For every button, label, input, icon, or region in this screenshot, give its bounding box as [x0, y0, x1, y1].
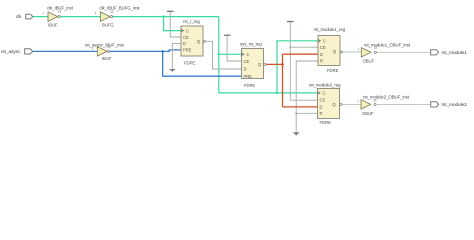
svg-text:R: R [320, 111, 323, 116]
svg-text:D: D [244, 67, 247, 72]
buffer OBUF rst_module2_OBUF_inst [357, 94, 409, 115]
svg-text:rst_module1: rst_module1 [442, 50, 468, 55]
flip-flop sys_rst_reg FDPE [240, 42, 266, 88]
wire clk branch down to rst_r_reg C [164, 17, 181, 31]
svg-text:O: O [111, 10, 114, 14]
svg-text:O: O [374, 46, 377, 50]
svg-text:clk: clk [16, 14, 22, 19]
svg-text:FDRE: FDRE [327, 68, 339, 73]
wire clk main vertical [218, 17, 220, 93]
wire clk branch up to rst_module1_reg C [277, 41, 318, 93]
svg-text:IBUF: IBUF [102, 56, 112, 61]
wire sys_rst net: sys_rst_reg Q to vertical [266, 63, 283, 65]
power const1 shared stub for rst_module1/2 CE [290, 22, 317, 101]
ground arrowhead rst_module R [293, 132, 300, 135]
svg-text:clk_IBUF_BUFG_inst: clk_IBUF_BUFG_inst [100, 6, 141, 11]
wire clk bottom horizontal to rst_module2_reg C [219, 92, 318, 94]
wire sys_rst to rst_module1_reg D [283, 53, 319, 55]
node junction clk at 218.8,54.3 [218, 53, 220, 55]
buffer BUFG clk_IBUF_BUFG_inst [95, 6, 140, 28]
svg-text:O: O [374, 98, 377, 102]
svg-text:D: D [320, 104, 323, 109]
wire sys_rst vertical [282, 54, 284, 107]
buffer IBUF clk_IBUF_inst [42, 6, 73, 28]
svg-text:BUFG: BUFG [102, 23, 114, 28]
svg-text:CE: CE [244, 59, 250, 64]
svg-text:I: I [42, 12, 43, 16]
svg-text:O: O [108, 45, 111, 49]
svg-text:I: I [358, 47, 359, 51]
port rst_async [25, 49, 33, 54]
svg-text:C: C [323, 91, 326, 96]
svg-text:FDPE: FDPE [244, 83, 255, 88]
wire rst_module2 Q to OBUF [342, 103, 362, 105]
wire const1 branch to rst_module1_reg CE [290, 46, 318, 48]
svg-text:D: D [320, 52, 323, 57]
svg-text:C: C [247, 52, 250, 57]
power const1 stub for sys_rst_reg CE [227, 35, 241, 61]
wire clk branch to sys_rst_reg C [219, 53, 242, 55]
svg-text:rst_module1_OBUF_inst: rst_module1_OBUF_inst [364, 42, 411, 47]
svg-text:CE: CE [183, 35, 189, 40]
buffer OBUF rst_module1_OBUF_inst [358, 42, 411, 63]
svg-text:PRE: PRE [183, 48, 192, 53]
svg-text:rst_module1_reg: rst_module1_reg [314, 27, 346, 32]
wire sys_rst to rst_module2_reg D [283, 106, 318, 108]
svg-text:PRE: PRE [244, 74, 253, 79]
ground const0 shared stub for rst_module1/2 R [296, 61, 318, 132]
wire clk_IBUF net: IBUF to BUFG [58, 16, 101, 18]
svg-text:rst_module2_reg: rst_module2_reg [309, 82, 341, 87]
svg-text:FDPE: FDPE [184, 60, 195, 65]
ground arrowhead rst_r_reg D [169, 69, 176, 72]
svg-text:rst_r_reg: rst_r_reg [183, 19, 200, 24]
wire rst_module1 Q to OBUF [342, 51, 361, 53]
wire rst_async_IBUF net: IBUF out to rst_r_reg PRE [110, 50, 181, 52]
port rst_module2 [431, 102, 439, 107]
svg-text:rst_async_IBUF_inst: rst_async_IBUF_inst [85, 42, 125, 47]
port rst_module1 [431, 50, 439, 55]
svg-text:Q: Q [197, 39, 200, 44]
svg-text:OBUF: OBUF [363, 59, 375, 64]
svg-text:R: R [320, 58, 323, 63]
wire rst_module2_OBUF to port [377, 103, 431, 105]
buffer IBUF rst_async_IBUF_inst [85, 42, 125, 61]
svg-text:C: C [186, 28, 189, 33]
svg-text:C: C [323, 39, 326, 44]
svg-text:CE: CE [320, 45, 326, 50]
node junction const0 at 295.8,113.3 [295, 112, 297, 114]
svg-text:FDRE: FDRE [320, 120, 332, 125]
svg-text:Q: Q [333, 49, 336, 54]
power const1 stub for rst_r_reg CE [170, 11, 181, 37]
svg-text:D: D [183, 41, 186, 46]
svg-text:O: O [58, 10, 61, 14]
flip-flop rst_module1_reg FDRE [314, 27, 346, 73]
node junction clk at 277,92.9 [276, 92, 278, 94]
node junction const1 at 290.3,47.2 [289, 46, 291, 48]
svg-text:I: I [95, 12, 96, 16]
svg-text:rst_async: rst_async [1, 49, 21, 54]
wire clk_IBUF_BUFG net: BUFG output horizontal rail [110, 16, 219, 18]
svg-text:IBUF: IBUF [48, 23, 58, 28]
wire rst_module1_OBUF to port [377, 51, 431, 53]
wire const0 branch to rst_module2_reg R [296, 112, 317, 114]
wire rst_r net: rst_r_reg Q to sys_rst_reg D [205, 41, 241, 69]
svg-text:OBUF: OBUF [362, 111, 374, 116]
node junction sys_rst at 282.5,64.4 [281, 63, 284, 66]
node junction rst_async at 162.7,50.8 [161, 50, 164, 53]
svg-text:Q: Q [332, 102, 335, 107]
port clk [26, 14, 33, 19]
wire rst_async branch down to sys_rst_reg PRE [163, 51, 242, 76]
power const1 bar sys_rst_reg [224, 34, 231, 36]
svg-text:Q: Q [258, 62, 261, 67]
svg-text:CE: CE [320, 97, 326, 102]
svg-text:I: I [357, 99, 358, 103]
wire clk net: port to IBUF [33, 16, 48, 18]
svg-text:sys_rst_reg: sys_rst_reg [240, 42, 262, 47]
power const1 bar rst_module CE [287, 21, 294, 23]
power const1 bar rst_r_reg [167, 10, 174, 12]
flip-flop rst_module2_reg FDRE [309, 82, 342, 125]
wire rst_async_IBUF net: port to IBUF [33, 50, 97, 52]
svg-text:I: I [92, 46, 93, 50]
ground const0 stub for rst_r_reg D [172, 43, 181, 69]
svg-text:rst_module2_OBUF_inst: rst_module2_OBUF_inst [363, 94, 410, 99]
flip-flop rst_r_reg FDPE [181, 19, 205, 66]
svg-text:rst_module2: rst_module2 [442, 102, 468, 107]
node junction clk at 163.6,17 [162, 15, 164, 17]
